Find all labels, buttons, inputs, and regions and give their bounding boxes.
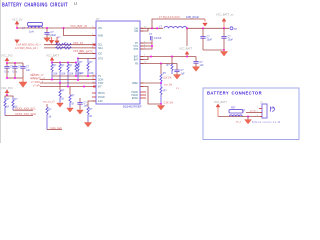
svg-text:BATTERY CONNECTOR: BATTERY CONNECTOR <box>207 90 262 95</box>
inductor L1 <box>22 22 42 33</box>
signal row TS <box>52 75 96 77</box>
wire pin2 <box>246 112 262 114</box>
svg-text:OTG: OTG <box>98 58 103 60</box>
svg-text:SCL: SCL <box>98 45 103 47</box>
svg-text:5V0: 5V0 <box>47 34 52 37</box>
node rail junctions <box>51 62 53 64</box>
svg-text:xxx_xx_x?: xxx_xx_x? <box>43 101 55 104</box>
svg-text:1uF: 1uF <box>200 64 205 67</box>
IC bottom-left: ILIM resistor to gnd <box>87 101 96 122</box>
svg-text:FB: FB <box>135 63 138 65</box>
wire CHG_BATT <box>78 53 96 55</box>
pin stubs right lower <box>140 91 146 93</box>
svg-text:TS: TS <box>98 76 101 78</box>
svg-text:10B_(D)uF: 10B_(D)uF <box>186 15 200 19</box>
resistor RP2 <box>59 63 66 84</box>
svg-text:10K: 10K <box>89 72 94 75</box>
resistor R-scl2 inline <box>64 44 72 46</box>
capacitor CB1 <box>4 63 13 78</box>
power arrow VDC mid B <box>55 37 61 44</box>
svg-text:1K: 1K <box>6 106 9 109</box>
resistor R-bat divider top <box>167 57 174 75</box>
power flag VCC_5V (top-left) <box>12 18 23 28</box>
resistor RD1 <box>4 97 10 116</box>
svg-text:ILIM: ILIM <box>98 101 103 103</box>
resistor R-chg <box>46 107 52 130</box>
wire VREF pin <box>140 82 161 84</box>
svg-text:10K: 10K <box>69 72 74 75</box>
connector mate symbol <box>271 107 275 112</box>
power flag VCC_BATT tap <box>179 46 193 56</box>
svg-text:VCC_BATT: VCC_BATT <box>214 101 227 104</box>
pin names right column <box>131 28 138 100</box>
svg-text:U?: U? <box>96 17 100 21</box>
svg-text:SYN: SYN <box>133 46 138 48</box>
svg-text:VCC_BATT: VCC_BATT <box>179 46 193 50</box>
power down arrow top right <box>203 19 208 26</box>
resistor RP3 <box>67 63 74 87</box>
pin pad red <box>93 86 95 88</box>
svg-text:CHG_batt: CHG_batt <box>50 126 62 130</box>
svg-text:xx 1%: xx 1% <box>30 77 38 80</box>
battery connector box <box>203 88 299 140</box>
svg-text:BATTERY CHARGING CIRCUIT: BATTERY CHARGING CIRCUIT <box>2 2 68 8</box>
wire row3 <box>40 82 96 84</box>
svg-text:54xxx-xxxx-xx-N: 54xxx-xxxx-xx-N <box>252 121 280 124</box>
pin names left column <box>98 28 105 103</box>
boot cap C-boot <box>149 33 162 43</box>
ground C-bat <box>192 67 199 72</box>
svg-text:PGND: PGND <box>98 97 105 99</box>
svg-text:XXXX_XXX_SDA: XXXX_XXX_SDA <box>15 112 36 116</box>
pin stubs left lower <box>92 92 96 94</box>
svg-text:10uF: 10uF <box>228 39 234 42</box>
svg-text:XXXX_XXX_SCL: XXXX_XXX_SCL <box>15 107 36 111</box>
capacitor CO2 <box>221 28 233 50</box>
wire battery feed <box>218 116 262 118</box>
svg-text:xxx 1%: xxx 1% <box>164 83 173 86</box>
svg-text:1uH: 1uH <box>29 31 34 34</box>
svg-text:BAT: BAT <box>134 58 139 61</box>
wire row2 <box>40 79 96 81</box>
pin pad red row1 <box>93 44 95 46</box>
wire BAT pins merge <box>140 56 196 58</box>
wire VCC_BATT rail <box>187 27 229 29</box>
svg-text:10K: 10K <box>79 72 84 75</box>
node C1 tap <box>46 27 48 29</box>
svg-text:FB?: FB? <box>231 107 236 110</box>
svg-text:PROG: PROG <box>98 93 105 95</box>
svg-text:10K: 10K <box>61 72 66 75</box>
svg-text:A.6 WDI_BGA_A3 >: A.6 WDI_BGA_A3 > <box>15 46 39 50</box>
ground C-fb <box>173 75 180 80</box>
wire cap bank bottom rail <box>7 77 23 79</box>
wire SW pins merge <box>140 27 163 29</box>
resistor RL1 <box>77 58 84 80</box>
pin stubs left edge <box>93 28 97 101</box>
svg-text:STB: STB <box>134 49 139 51</box>
svg-text:1uF: 1uF <box>84 104 89 107</box>
svg-text:10uF: 10uF <box>51 34 57 37</box>
svg-text:L? PQ-4.0.5-XXX: L? PQ-4.0.5-XXX <box>159 15 180 19</box>
svg-text:R?: R? <box>242 108 246 112</box>
resistor R-fb2 <box>160 83 174 104</box>
svg-text:QON: QON <box>98 80 104 82</box>
svg-text:12K 1%: 12K 1% <box>163 77 172 80</box>
wire SCL <box>44 44 96 46</box>
svg-text:VCC_BAT_IN: VCC_BAT_IN <box>70 24 87 28</box>
connector J1 <box>257 101 268 118</box>
wire FB pin <box>140 63 177 65</box>
ground caps <box>220 50 227 56</box>
ground ILIM <box>84 122 91 127</box>
ground below R-mid2 <box>67 108 74 112</box>
svg-text:1K: 1K <box>61 97 64 100</box>
wire row4 <box>40 86 96 88</box>
resistor RP4 <box>75 63 82 77</box>
wire RT pins <box>140 43 152 49</box>
ground below C1 <box>44 38 51 42</box>
svg-text:2.2K 1%: 2.2K 1% <box>164 101 174 104</box>
svg-text:VCC_3V3: VCC_3V3 <box>1 86 13 90</box>
svg-text:PGND: PGND <box>131 92 138 94</box>
wire SCL out <box>13 109 33 111</box>
ground cap bank <box>19 78 27 87</box>
inductor FB battery <box>229 107 243 117</box>
svg-text:PGND: PGND <box>131 95 138 97</box>
resistor R-mid x60 <box>59 83 65 103</box>
test point TP <box>230 27 238 31</box>
capacitor C-fb <box>174 64 185 76</box>
svg-text:10K: 10K <box>53 72 58 75</box>
inductor L2 <box>159 24 187 28</box>
svg-text:0.47uF: 0.47uF <box>154 37 162 40</box>
svg-text:VREF: VREF <box>132 83 139 85</box>
wire bootstrap top <box>152 19 205 28</box>
wire divider top <box>5 96 13 97</box>
svg-text:VIN: VIN <box>98 28 102 30</box>
node battery gnd tap <box>247 116 249 118</box>
resistor RL2 <box>87 58 94 76</box>
svg-text:VCC_BATT: VCC_BATT <box>46 54 60 58</box>
svg-text:BQ24610RGER: BQ24610RGER <box>123 104 142 108</box>
ground below C-mid <box>77 110 84 114</box>
svg-text:2K: 2K <box>89 115 92 118</box>
svg-text:xx_x: xx_x <box>236 121 242 124</box>
op IC U1 body <box>96 17 142 108</box>
svg-text:INT: INT <box>98 87 102 89</box>
capacitor C-bat <box>193 57 204 68</box>
power arrow small above labels <box>15 40 20 43</box>
svg-text:10uF: 10uF <box>207 39 213 42</box>
resistor R-fb1 <box>160 64 173 84</box>
wire SDA <box>44 47 96 49</box>
wire pull-up rail <box>52 62 76 64</box>
power flag VCC_BATT_xx <box>216 12 234 27</box>
resistor RP1 <box>51 63 58 80</box>
node AVIN branch <box>63 27 65 29</box>
wire pin y86.5 route <box>140 87 161 105</box>
wire CHG branch <box>46 104 48 107</box>
sheet left edge <box>0 0 2 143</box>
capacitor bank VCC_3V3 top-left <box>1 53 13 62</box>
wire x78 rail <box>78 57 96 59</box>
svg-text:1K: 1K <box>71 102 74 105</box>
power flag VCC_BATT in box <box>214 101 227 117</box>
power arrow VDC mid A <box>47 34 54 43</box>
svg-text:1uF: 1uF <box>26 70 31 72</box>
ground R-fb2 <box>157 104 164 110</box>
svg-text:x? xPx: x? xPx <box>33 84 41 87</box>
capacitor C1 <box>44 28 56 38</box>
capacitor C-mid x80 <box>77 98 88 110</box>
svg-text:EPAD: EPAD <box>132 97 138 100</box>
IC left lower: rail + two resistors <box>77 58 79 60</box>
svg-text:AVIN: AVIN <box>98 35 104 38</box>
svg-text:VCC_5V: VCC_5V <box>12 18 23 22</box>
ground battery <box>245 117 252 124</box>
capacitor CB3 <box>20 63 30 81</box>
capacitor CB2 <box>12 63 21 78</box>
resistor R-scl inline <box>56 44 64 46</box>
svg-text:U: U <box>74 1 78 7</box>
wire VIN rail <box>17 27 96 29</box>
wire SDA out <box>5 115 33 117</box>
resistor R-mid2 x70 <box>69 87 75 108</box>
wire cap gnd rail <box>203 49 224 51</box>
resistor R-sda2 inline <box>64 47 72 49</box>
capacitor CO1 <box>200 28 212 50</box>
node VIN junction <box>16 27 18 29</box>
svg-text:XXX_XX: XXX_XX <box>73 41 83 45</box>
wire cap bank top rail <box>7 62 23 64</box>
svg-text:SDA: SDA <box>98 47 103 50</box>
svg-text:L?: L? <box>159 24 163 28</box>
svg-text:L?: L? <box>22 26 26 30</box>
svg-text:XXX_BATT: XXX_BATT <box>79 50 93 54</box>
resistor RD2 <box>12 97 18 110</box>
ground below R-mid <box>57 103 64 107</box>
power flag VCC_3V3 divider <box>1 86 13 95</box>
svg-text:STAT: STAT <box>98 82 104 85</box>
svg-text:/CE: /CE <box>98 53 102 55</box>
wire VCC_BATT flag drop <box>186 28 188 46</box>
wire CHG out <box>47 129 62 131</box>
power flag pull-up bank <box>46 54 60 63</box>
svg-text:BAT: BAT <box>134 55 139 58</box>
svg-text:VCC_BATT_xx: VCC_BATT_xx <box>216 12 234 16</box>
svg-text:VCC_3V3: VCC_3V3 <box>1 53 13 57</box>
svg-text:1uF: 1uF <box>181 72 186 75</box>
svg-text:1K: 1K <box>48 115 51 118</box>
pin stubs right edge <box>140 28 144 86</box>
wire AVIN <box>64 28 97 36</box>
resistor R-sda inline <box>56 47 64 49</box>
